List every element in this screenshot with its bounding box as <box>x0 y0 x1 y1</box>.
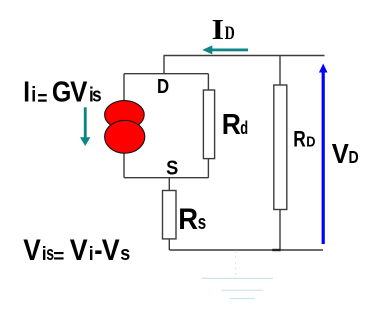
svg-text:D: D <box>225 22 235 43</box>
svg-text:R: R <box>293 128 306 153</box>
svg-text:R: R <box>178 203 198 236</box>
svg-text:I: I <box>23 76 30 108</box>
svg-text:=: = <box>37 87 47 110</box>
svg-text:D: D <box>157 75 169 98</box>
svg-text:=: = <box>53 246 64 267</box>
svg-text:S: S <box>166 158 178 180</box>
svg-text:s: s <box>92 83 101 106</box>
svg-text:D: D <box>349 149 359 168</box>
svg-text:d: d <box>240 119 248 139</box>
svg-text:D: D <box>306 133 315 150</box>
svg-text:R: R <box>222 108 241 140</box>
svg-text:V: V <box>70 75 87 107</box>
svg-text:G: G <box>52 76 72 108</box>
svg-text:i: i <box>31 83 36 107</box>
svg-text:I: I <box>212 13 224 45</box>
svg-text:V: V <box>70 234 88 266</box>
svg-text:V: V <box>332 138 349 169</box>
svg-text:i: i <box>89 242 94 264</box>
svg-text:V: V <box>102 234 120 266</box>
svg-text:V: V <box>23 234 41 267</box>
svg-text:s: s <box>120 243 130 265</box>
svg-text:s: s <box>198 211 207 234</box>
